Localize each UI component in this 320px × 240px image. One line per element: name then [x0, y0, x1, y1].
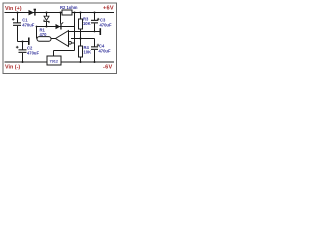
svg-text:Vin (-): Vin (-) — [5, 65, 20, 71]
wire bubble to vertical — [72, 42, 75, 44]
resistor R1 — [37, 37, 51, 42]
junction dots — [16, 11, 95, 63]
wire R3 chain leads — [80, 13, 82, 20]
svg-text:10K: 10K — [84, 50, 92, 55]
wire R4 bottom lead — [80, 57, 82, 62]
capacitor C1 — [12, 18, 21, 26]
wire box top pin — [53, 51, 55, 56]
wire ZD2 cathode to rail — [60, 13, 62, 24]
svg-text:Vin (+): Vin (+) — [5, 6, 22, 12]
ground terminal bar — [28, 38, 30, 45]
wire C4 bottom lead — [94, 50, 96, 62]
svg-text:470uF: 470uF — [100, 22, 112, 27]
wire C3 bottom lead — [94, 23, 96, 31]
wire C1 top lead — [17, 13, 19, 23]
svg-text:7912: 7912 — [50, 59, 58, 63]
wire bottom rail left — [5, 61, 48, 63]
svg-text:10K: 10K — [83, 21, 91, 26]
wire vertical x74 — [74, 13, 76, 51]
resistor R2 — [62, 10, 72, 15]
regulator U2 box 7912 — [47, 56, 61, 65]
wire C2 bottom lead — [22, 53, 24, 62]
wire zener reference line — [37, 26, 75, 28]
capacitor C4 — [91, 44, 99, 50]
capacitor C2 — [16, 46, 27, 53]
wire R1 to op-amp apex — [51, 38, 56, 40]
zener ZD2 — [56, 22, 64, 29]
svg-text:470uF: 470uF — [99, 48, 111, 53]
svg-text:+6V: +6V — [103, 6, 114, 12]
wire R1 corner vertical — [36, 27, 38, 39]
wire node B horizontal — [71, 38, 95, 40]
svg-text:R2 1ohm: R2 1ohm — [60, 5, 78, 10]
resistor R4 — [78, 46, 82, 57]
wire feedback to box top — [54, 50, 75, 52]
wire C4 top lead — [94, 39, 96, 47]
op-amp U1 — [56, 31, 72, 47]
svg-text:470uF: 470uF — [27, 50, 39, 55]
wire top rail +V — [5, 12, 115, 14]
ground terminal bar right — [100, 28, 102, 35]
wire op-amp top input — [68, 31, 100, 33]
svg-text:-6V: -6V — [103, 65, 112, 71]
svg-text:470uF: 470uF — [22, 22, 34, 27]
wire C1 bottom lead — [17, 26, 19, 42]
border frame — [3, 3, 117, 74]
wire bottom rail right — [61, 61, 114, 63]
wire C2 top lead — [22, 42, 24, 50]
wire zener ZD1 leads — [46, 13, 48, 17]
zener ZD1 — [44, 16, 50, 23]
wire C3 top lead — [94, 13, 96, 20]
resistor R3 — [78, 19, 82, 29]
svg-text:470: 470 — [40, 32, 48, 37]
capacitor C3 — [91, 18, 100, 24]
diode D1 — [29, 9, 37, 16]
wire mid node to terminal — [18, 41, 29, 43]
